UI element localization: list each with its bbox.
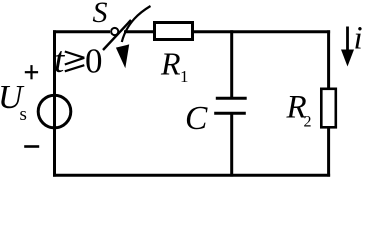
current arrow i shaft [346, 27, 349, 53]
svg-text:1: 1 [180, 67, 189, 86]
svg-text:t: t [54, 40, 66, 81]
wire top-left horizontal [53, 30, 110, 33]
polarity plus horizontal [25, 71, 38, 73]
wire right vertical bottom [327, 127, 330, 177]
svg-text:C: C [185, 100, 208, 137]
capacitor C bottom plate [214, 112, 246, 115]
svg-text:0: 0 [85, 42, 103, 81]
wire capacitor branch top [230, 30, 233, 98]
polarity plus vertical [30, 65, 32, 79]
svg-text:2: 2 [304, 114, 312, 131]
svg-text:S: S [93, 0, 108, 29]
wire right vertical top [327, 30, 330, 89]
switch closing arrow curve [122, 6, 151, 42]
switch closing arrowhead [116, 44, 129, 68]
resistor R1 box [155, 23, 193, 40]
wire bottom horizontal [53, 174, 330, 177]
switch S contact circle [111, 28, 118, 35]
svg-text:s: s [20, 104, 27, 125]
resistor R2 box [321, 89, 336, 128]
voltage source Us circle [38, 95, 71, 128]
label greater-equal upper stroke [65, 52, 85, 58]
polarity minus [24, 145, 39, 148]
switch S blade [103, 20, 131, 50]
svg-text:i: i [354, 21, 363, 57]
wire left vertical [53, 30, 56, 176]
wire R1 to top-right corner [192, 30, 330, 33]
wire switch to R1 [124, 30, 156, 33]
current arrow i head [341, 50, 354, 67]
wire capacitor branch bottom [230, 113, 233, 176]
capacitor C top plate [216, 97, 247, 100]
label greater-equal lower stroke [65, 58, 85, 65]
svg-text:R: R [160, 46, 181, 82]
label greater-equal bar [65, 65, 85, 71]
